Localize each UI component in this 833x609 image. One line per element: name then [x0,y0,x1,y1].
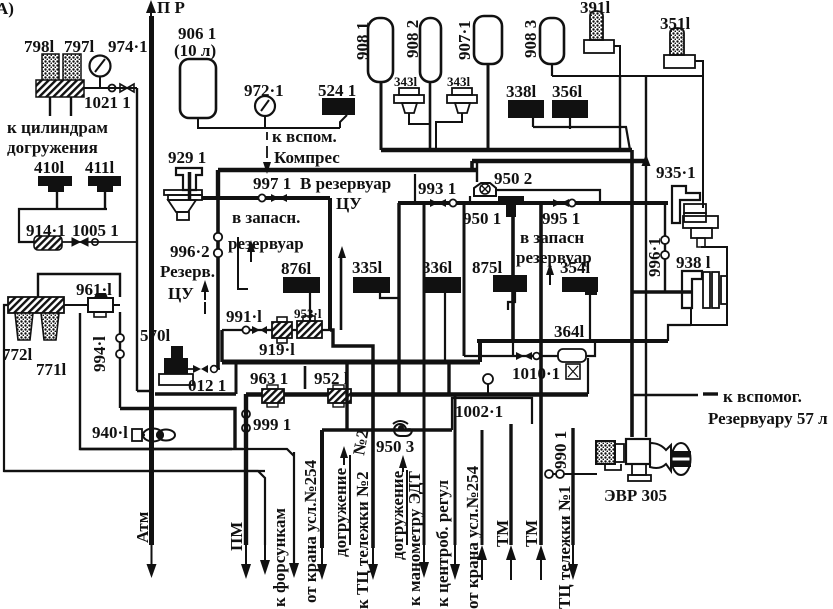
svg-text:338l: 338l [506,82,537,101]
pipe x482 (от крана 254 right) [481,430,484,545]
label к вспомог. Резервуару 57 л [703,387,828,428]
svg-text:к ТЦ тележки №2: к ТЦ тележки №2 [353,471,372,609]
valve 343-2 [436,74,477,150]
svg-text:950 1: 950 1 [463,209,501,228]
pipe догружение x322 [317,430,350,580]
wire box edge x80 [80,313,232,449]
wire 953-1 to x330/x340 jog [330,330,373,362]
valve 410-1 (black) [34,158,72,208]
svg-text:к манометру ЭДТ: к манометру ЭДТ [405,471,424,606]
wire x646 drop to EVR + branch к вспомог [632,394,698,397]
valve 354-1 (black) [560,258,598,341]
manifold base of 798/797 [36,80,84,97]
svg-text:364l: 364l [554,322,585,341]
wire x620 from 391-1 to y150 [619,76,621,152]
valve 999-1 (two circles) [242,410,291,434]
pipe ТМ x511 arrow up [493,520,516,580]
svg-text:950 3: 950 3 [376,437,414,456]
valve 950-3 (clover) [376,421,414,456]
wire x330 down from y198 [328,198,332,330]
svg-text:резервуар: резервуар [228,234,304,253]
svg-text:ЦУ: ЦУ [168,284,194,303]
svg-text:990 1: 990 1 [551,431,570,469]
svg-text:772l: 772l [2,345,33,364]
svg-text:343l: 343l [394,74,418,89]
wire x541 branch down (TM) [539,203,543,545]
pipe к центроб x455 arrow [433,480,460,607]
pipe x373 arrow [368,548,378,580]
wire x464 from y203 down [463,203,466,356]
wire block right to valve [64,304,120,306]
valve 343-1 [394,74,430,124]
svg-text:догружение: догружение [331,467,350,557]
svg-text:Атм: Атм [133,511,152,543]
gauge 974-1 [90,37,148,88]
valve 990-1 (two circles) [545,431,597,478]
svg-text:В резервуар: В резервуар [300,174,391,193]
reservoir 907-1 [455,16,502,150]
svg-text:ЦУ: ЦУ [336,194,362,213]
gauge 972-1 [244,81,284,128]
compressor drive 012-1 (black) [159,346,226,395]
wire y292 to 938-1 [632,290,692,294]
svg-text:876l: 876l [281,259,312,278]
valve 994-1 (two circles on x120) [90,312,124,408]
compressor 935-1 [656,163,718,247]
pipe ТЦ тележки №1 x573 arrow [555,485,578,609]
reservoir 908-3 [521,18,564,76]
wire cylinder stems from manifold [50,97,71,116]
wire 908-3 / 391-1 header y76 [552,75,703,77]
pipe к манометру x424 arrow [405,471,429,606]
wire 938-1 to y341 [668,325,691,341]
svg-text:в запасн: в запасн [520,228,584,247]
svg-text:798l: 798l [24,37,55,56]
wire y407 collector [155,392,236,396]
svg-text:974·1: 974·1 [108,37,148,56]
label к вспом. Компрес with dashed arrow [263,127,340,174]
valve 963-1 [250,369,288,407]
valve 997-1 (circle + bowtie) [253,174,291,202]
svg-text:к цилиндрам: к цилиндрам [7,118,108,137]
svg-text:940·l: 940·l [92,423,128,442]
svg-text:907·1: 907·1 [455,20,474,60]
valve 996-2 (two circles on x218) [170,233,222,261]
svg-text:ЭВР 305: ЭВР 305 [604,486,667,505]
svg-text:1002·1: 1002·1 [455,402,503,421]
svg-text:Резерв.: Резерв. [160,262,215,281]
svg-text:875l: 875l [472,258,503,277]
pipe догружение x401 [388,455,407,560]
pipe от крана №254 x482 arrow up [463,465,487,609]
valve chain 991-1 [222,307,330,334]
wire header y161 [472,159,646,163]
pipe к форсункам x265 [260,508,289,607]
svg-text:950 2: 950 2 [494,169,532,188]
svg-text:в запасн.: в запасн. [232,208,300,227]
pipe x455 (к центроб) [454,394,457,545]
pipe к ТЦ тележки №2 x350 [349,428,372,609]
maze vertical x424 (к манометру pipe) [423,203,426,545]
svg-text:411l: 411l [85,158,115,177]
svg-text:524 1: 524 1 [318,81,356,100]
valve 995-1 bowtie+circle [542,199,580,228]
wire x398 down segment [397,203,400,394]
valve 996-1 (two circles) [645,236,669,277]
wire jog x480 y341-y362 [478,341,482,362]
maze vertical x373 (к ТЦ тележки №2 pipe) [371,362,375,548]
svg-text:012 1: 012 1 [188,376,226,395]
label в запасн резервуар (right) with arrow [516,228,592,285]
svg-text:999 1: 999 1 [253,415,291,434]
wire header y150 (main collector) [381,148,632,152]
svg-text:А): А) [0,0,14,18]
svg-text:997 1: 997 1 [253,174,291,193]
wire 1021-1 down line x137 [137,88,153,391]
svg-text:к вспом.: к вспом. [272,127,337,146]
pipe ПМ x246 [227,394,251,579]
maze vertical x449 [447,362,450,394]
svg-text:336l: 336l [422,258,453,277]
svg-text:ПМ: ПМ [227,522,246,551]
valve 1021-1 (circle + bowtie) [84,84,134,112]
solenoid valve ЭВР 305 [596,439,691,505]
svg-text:1005 1: 1005 1 [72,221,119,240]
wire y341 collector [477,339,668,343]
wire y430 segment [322,428,452,432]
wire 906-1 to 524-1 [198,118,340,128]
wire main valve line y203 [398,201,668,205]
bleed valve on y396 [483,374,493,394]
svg-text:ТЦ тележки №1: ТЦ тележки №1 [555,485,574,609]
svg-text:ТМ: ТМ [522,520,541,547]
pipe ПР arrow up [146,0,185,18]
wire y362 collector (top of lower box) [222,360,480,365]
wire 338/356 collector to x630 [533,127,630,150]
valve 961-1 [76,280,113,317]
svg-text:995 1: 995 1 [542,209,580,228]
valve 993-1 bowtie+circle [430,199,457,207]
svg-text:догружения: догружения [7,138,98,157]
valve 336-1 (black) [422,258,461,362]
reservoir 908-1 [353,18,393,150]
label В резервуар ЦУ [300,174,391,330]
valve 797-1 (hatched) [63,37,95,82]
valve 876-1 (black) [281,259,320,324]
valve 798-1 (hatched) [24,37,59,82]
valve body (991-1) [272,317,292,343]
wire left frame x4 [4,305,265,471]
svg-text:993 1: 993 1 [418,179,456,198]
valve 875-1 (black) [472,258,527,310]
valve 411-1 (black) [85,158,121,209]
wire block top loop to 961-1 [38,274,120,297]
svg-text:994·l: 994·l [90,336,109,372]
reservoir 906-1 [174,24,216,118]
valve 953-1 [294,306,322,338]
label к цилиндрам догружения [7,118,108,157]
wire y396 main lower line [246,392,588,396]
svg-text:1010·1: 1010·1 [512,364,560,383]
wire y471 [4,471,265,545]
svg-text:к вспомог.: к вспомог. [723,387,802,406]
junction box 1002-1 [452,398,532,430]
svg-text:771l: 771l [36,360,67,379]
wire ПР main vertical pipe (Атм line) [149,16,154,545]
svg-text:953·l: 953·l [294,306,322,321]
wire loop 935-1 to 938-1 box [691,247,727,325]
tee 950-1 (black) [463,196,524,341]
svg-text:354l: 354l [560,258,591,277]
svg-text:П Р: П Р [157,0,185,17]
air distributor 929-1 [164,148,206,220]
svg-text:Резервуару 57 л: Резервуару 57 л [708,409,828,428]
svg-text:к форсункам: к форсункам [270,508,289,607]
valve 1005-1 (two bowties) [62,221,137,246]
svg-text:570l: 570l [140,326,171,345]
filter 914-1 [26,221,66,250]
pipe x573 (ТЦ тележки 1) [571,428,574,545]
label Резерв. ЦУ with arrow [160,262,215,314]
svg-text:938 l: 938 l [676,253,711,272]
valve 351-1 (hatched bolt) [660,14,703,208]
svg-text:335l: 335l [352,258,383,277]
svg-text:908 3: 908 3 [521,20,540,58]
pipe от крана усл.№254 x294 [243,449,320,603]
air distributor 938-1 [676,253,727,308]
svg-text:935·1: 935·1 [656,163,696,182]
junction box 993-1 [415,174,456,203]
svg-text:797l: 797l [64,37,95,56]
valve 950-2 (cross top) [470,161,600,203]
svg-text:Компрес: Компрес [274,148,340,167]
valve 391-1 (hatched bolt) [580,0,620,76]
pump 940-1 [92,423,175,442]
valve 356-1 (black) [552,82,588,129]
svg-text:(10 л): (10 л) [174,41,216,60]
wire x646 from y76 to y203 [645,76,647,437]
valve 1010-1 chain [464,341,595,383]
wire header y172 [218,168,477,172]
svg-text:410l: 410l [34,158,65,177]
svg-text:ТМ: ТМ [493,520,512,547]
wire x218 down (left box edge) [216,198,220,369]
wire 410/411 collector [19,209,107,242]
wire 935-1 feed y203 junction to x665 [664,203,666,292]
wire Атм bottom arrow [133,511,157,578]
svg-text:343l: 343l [447,74,471,89]
svg-text:к центроб. регул: к центроб. регул [433,480,452,607]
svg-text:от крана усл.№254: от крана усл.№254 [301,459,320,603]
pipe x511 (ТМ) [509,424,512,545]
wire 929-1 output y198 [202,196,330,200]
valve 012-1 bowties [186,365,220,373]
wire y449 [80,448,243,450]
valve 524-1 (black) [318,81,356,128]
svg-text:996·2: 996·2 [170,242,210,261]
wire manifold to 1021-1 [84,87,137,89]
wire x630 long vertical to EVR [630,150,634,437]
wire 929-1 up to header [216,170,220,200]
pipe ТМ x541 arrow up [522,520,546,580]
wire x222 box edge y330-362 [220,330,223,362]
valve 952-1 [314,369,351,407]
valve 338-1 (black) [506,82,544,127]
svg-text:919·l: 919·l [259,340,295,359]
valve 335-1 (black) [352,258,399,298]
svg-text:от крана усл.№254: от крана усл.№254 [463,465,482,609]
maze vertical x347 [345,362,348,430]
reservoir 908-2 [403,18,441,150]
svg-text:356l: 356l [552,82,583,101]
wire jog x422 [470,161,474,170]
label в запасн. резервуар (left) with arrow [228,208,304,289]
dryer 772-1/771-1 block [2,297,67,379]
svg-text:991·l: 991·l [226,307,262,326]
svg-text:929 1: 929 1 [168,148,206,167]
svg-text:1021 1: 1021 1 [84,93,131,112]
